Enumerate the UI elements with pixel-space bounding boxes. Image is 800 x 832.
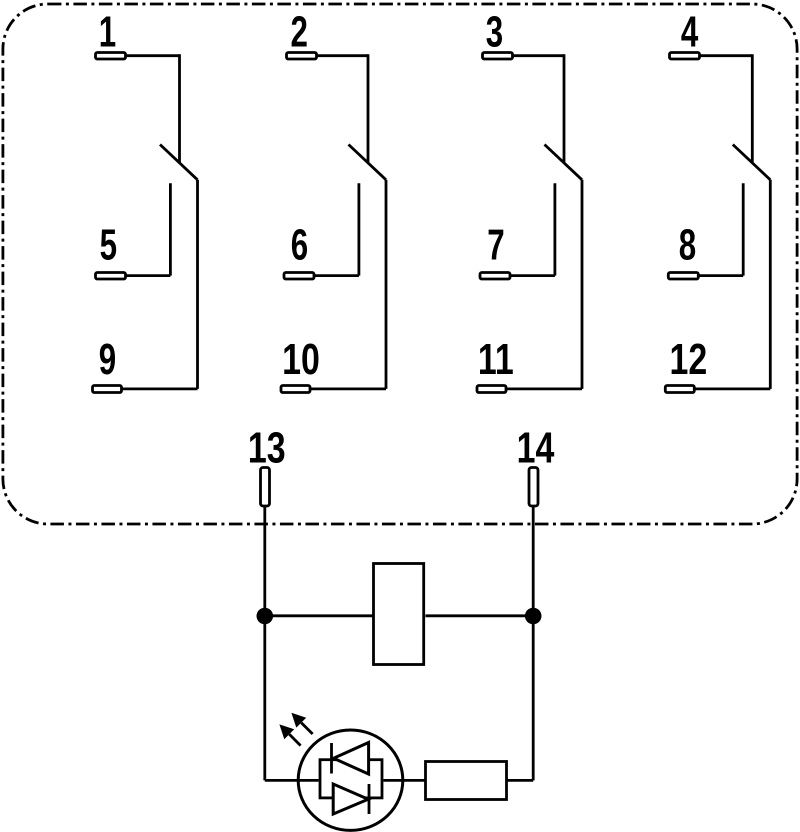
- svg-text:12: 12: [670, 336, 708, 384]
- svg-text:4: 4: [681, 9, 698, 57]
- svg-text:1: 1: [99, 9, 116, 57]
- svg-text:5: 5: [100, 222, 117, 270]
- svg-text:7: 7: [487, 222, 504, 270]
- svg-text:3: 3: [486, 9, 503, 57]
- svg-text:11: 11: [478, 336, 514, 384]
- svg-text:14: 14: [517, 424, 555, 472]
- svg-text:9: 9: [99, 336, 116, 384]
- svg-text:6: 6: [291, 222, 308, 270]
- svg-text:13: 13: [248, 424, 286, 472]
- svg-text:2: 2: [290, 9, 307, 57]
- svg-text:10: 10: [282, 336, 320, 384]
- svg-text:8: 8: [679, 222, 696, 270]
